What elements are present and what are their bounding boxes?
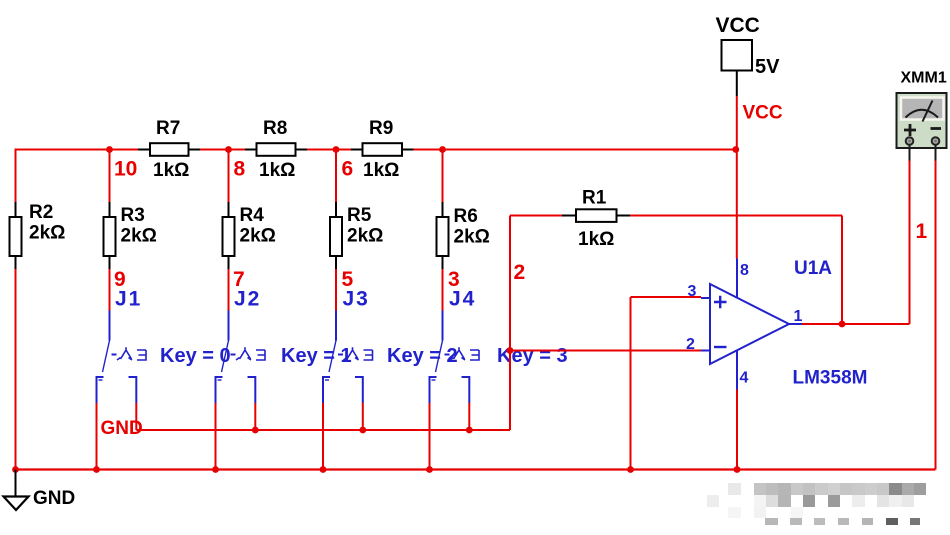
wire top rail net VCC — [16, 149, 736, 151]
svg-text:J3: J3 — [343, 288, 370, 311]
junction net 2 inverting input — [507, 347, 514, 354]
node label 2 — [514, 261, 526, 284]
switch J3 — [323, 311, 373, 404]
wire net GND horizontal — [136, 429, 510, 431]
wire J3 left throw to ground rail — [322, 403, 324, 470]
wire feedback vertical — [841, 216, 843, 324]
wire net 2 vertical — [509, 216, 511, 431]
wire R1 right to output — [630, 215, 842, 217]
node junction R6 top — [439, 146, 446, 153]
node label 9 — [114, 268, 126, 291]
value R3 2k — [121, 226, 157, 247]
svg-text:2kΩ: 2kΩ — [347, 226, 383, 247]
node label 8 — [234, 158, 246, 181]
svg-text:U1A: U1A — [794, 258, 832, 279]
junction J2 on net GND — [252, 427, 259, 434]
svg-text:R2: R2 — [29, 202, 53, 223]
switch J2 — [216, 311, 266, 404]
node junction VCC rail — [732, 146, 739, 153]
wire J3 right throw to net GND — [362, 403, 364, 430]
wire J1 right throw to net GND — [135, 403, 137, 430]
svg-text:R3: R3 — [121, 205, 145, 226]
ground — [4, 470, 29, 511]
wire R4 top — [228, 151, 230, 202]
svg-text:Key = 2: Key = 2 — [387, 345, 458, 367]
value R9 1k — [363, 160, 399, 181]
wire ground rail — [16, 468, 936, 470]
node 8 junction — [225, 146, 232, 153]
pin 8 label — [740, 262, 749, 279]
svg-text:VCC: VCC — [743, 103, 783, 124]
value R8 1k — [259, 160, 295, 181]
label Key = 1 — [281, 345, 352, 367]
wire meter minus to ground rail — [935, 161, 937, 470]
resistor R4 — [223, 202, 235, 269]
resistor R9 — [351, 143, 414, 156]
value R2 2k — [29, 223, 65, 244]
wire output net 1 — [802, 161, 910, 325]
wire J4 right throw to net GND — [468, 403, 470, 430]
resistor R7 — [138, 143, 200, 156]
wire VCC to pin 8 — [736, 96, 738, 259]
label R7 — [156, 118, 180, 139]
svg-text:5V: 5V — [755, 56, 780, 78]
pin 1 label — [794, 308, 803, 325]
svg-text:GND: GND — [101, 418, 143, 439]
resistor R2 — [10, 202, 22, 269]
svg-text:Key = 0: Key = 0 — [160, 345, 231, 367]
wire R3 top — [109, 151, 111, 202]
svg-text:1kΩ: 1kΩ — [363, 160, 399, 181]
value 5V — [755, 56, 780, 78]
value R6 2k — [454, 227, 490, 248]
value R7 1k — [153, 160, 189, 181]
resistor R5 — [330, 202, 342, 269]
svg-text:4: 4 — [740, 370, 749, 387]
junction J4 on net GND — [466, 427, 473, 434]
junction rail R2 — [12, 466, 19, 473]
resistor R8 — [245, 143, 307, 156]
svg-text:XMM1: XMM1 — [901, 70, 947, 87]
value R5 2k — [347, 226, 383, 247]
wire J2 right throw to net GND — [254, 403, 256, 430]
svg-text:1kΩ: 1kΩ — [153, 160, 189, 181]
junction rail J4 — [426, 466, 433, 473]
wire J2 left throw to ground rail — [215, 403, 217, 470]
value R1 1k — [578, 229, 614, 250]
wire inverting input net — [510, 350, 701, 352]
svg-text:2: 2 — [514, 261, 526, 284]
label J3 — [343, 288, 370, 311]
label J1 — [115, 288, 142, 311]
wire R2 bottom to ground rail — [15, 269, 17, 470]
pin 3 label — [688, 283, 697, 300]
svg-text:1kΩ: 1kΩ — [259, 160, 295, 181]
svg-text:2kΩ: 2kΩ — [454, 227, 490, 248]
svg-text:2kΩ: 2kΩ — [240, 226, 276, 247]
junction rail pin3 — [627, 466, 634, 473]
svg-text:1kΩ: 1kΩ — [578, 229, 614, 250]
resistor R6 — [437, 202, 449, 269]
svg-text:2: 2 — [686, 336, 695, 353]
svg-text:R4: R4 — [240, 205, 265, 226]
svg-text:R1: R1 — [582, 188, 607, 209]
svg-text:R6: R6 — [454, 206, 478, 227]
wire J1 left throw to ground rail — [96, 403, 98, 470]
label R1 — [582, 188, 607, 209]
junction J3 on net GND — [359, 427, 366, 434]
label Key = 2 — [387, 345, 458, 367]
label R8 — [263, 118, 287, 139]
svg-text:GND: GND — [33, 488, 75, 509]
wire net 5 — [335, 269, 337, 311]
switch J4 — [430, 311, 480, 404]
label VCC black — [716, 14, 760, 37]
net label GND red — [101, 418, 143, 439]
svg-text:LM358M: LM358M — [793, 368, 868, 389]
label LM358M — [793, 368, 868, 389]
wire net 2 to R1 — [510, 215, 562, 217]
label GND black — [33, 488, 75, 509]
label XMM1 — [901, 70, 947, 87]
wire R2 top — [15, 149, 17, 203]
junction rail J3 — [320, 466, 327, 473]
svg-text:R9: R9 — [369, 118, 393, 139]
svg-text:R8: R8 — [263, 118, 287, 139]
node 10 junction — [106, 146, 113, 153]
wire net 7 — [228, 269, 230, 311]
svg-text:8: 8 — [740, 262, 749, 279]
node label 7 — [233, 268, 245, 291]
label Key = 0 — [160, 345, 231, 367]
label R9 — [369, 118, 393, 139]
label R2 — [29, 202, 53, 223]
resistor R1 — [562, 209, 630, 222]
resistor R3 — [104, 202, 116, 269]
label J2 — [234, 288, 261, 311]
node label 3 — [448, 268, 460, 291]
svg-text:10: 10 — [114, 158, 137, 181]
svg-text:8: 8 — [234, 158, 246, 181]
junction rail J1 — [93, 466, 100, 473]
wire pin 4 to ground rail — [736, 390, 738, 470]
label R5 — [347, 205, 372, 226]
node label 5 — [342, 268, 354, 291]
watermark mosaic — [707, 483, 926, 525]
svg-text:6: 6 — [342, 158, 354, 181]
svg-text:2kΩ: 2kΩ — [121, 226, 157, 247]
svg-text:1: 1 — [794, 308, 803, 325]
net label 1 — [916, 220, 928, 243]
label R4 — [240, 205, 265, 226]
net label VCC red — [743, 103, 783, 124]
label R3 — [121, 205, 145, 226]
wire net 9 — [109, 269, 111, 311]
label R6 — [454, 206, 478, 227]
node label 6 — [342, 158, 354, 181]
junction rail pin4 — [734, 466, 741, 473]
label U1A — [794, 258, 832, 279]
svg-text:J1: J1 — [115, 288, 142, 311]
svg-text:R7: R7 — [156, 118, 180, 139]
power source VCC — [722, 40, 753, 96]
svg-text:2kΩ: 2kΩ — [29, 223, 65, 244]
svg-text:1: 1 — [916, 220, 928, 243]
op-amp U1A — [701, 259, 802, 390]
svg-text:3: 3 — [688, 283, 697, 300]
wire net 3 — [442, 269, 444, 311]
wire noninverting input net — [631, 297, 702, 470]
node label 10 — [114, 158, 137, 181]
svg-text:J4: J4 — [449, 288, 476, 311]
wire R5 top — [335, 151, 337, 202]
junction output feedback — [839, 321, 846, 328]
wire J4 left throw to ground rail — [429, 403, 431, 470]
label Key = 3 — [497, 345, 568, 367]
label J4 — [449, 288, 476, 311]
svg-text:R5: R5 — [347, 205, 372, 226]
pin 4 label — [740, 370, 749, 387]
multimeter XMM1 — [897, 93, 947, 161]
junction rail J2 — [212, 466, 219, 473]
wire R6 top — [442, 151, 444, 202]
pin 2 label — [686, 336, 695, 353]
svg-text:Key = 1: Key = 1 — [281, 345, 352, 367]
svg-text:J2: J2 — [234, 288, 261, 311]
svg-text:VCC: VCC — [716, 14, 760, 37]
switch J1 — [97, 311, 147, 404]
node 6 junction — [333, 146, 340, 153]
value R4 2k — [240, 226, 276, 247]
